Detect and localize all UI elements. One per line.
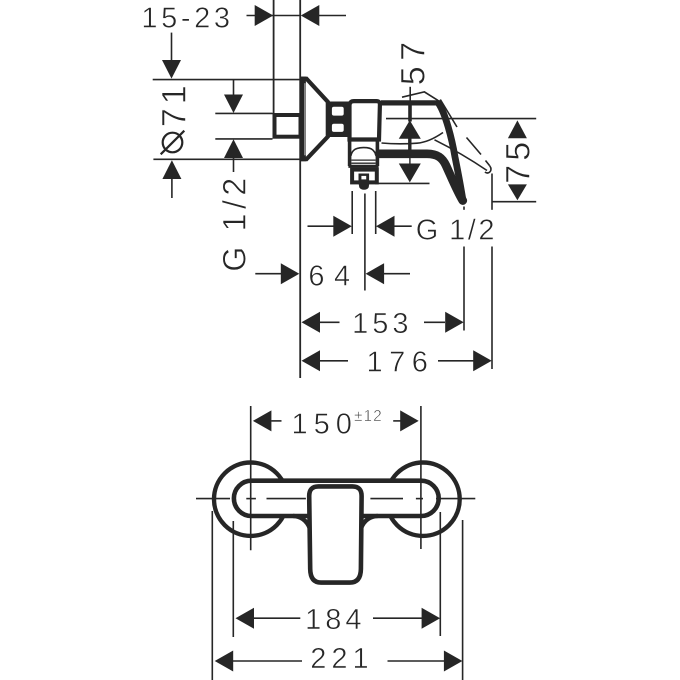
dim G1/2 wall stub: arrows bbox=[224, 80, 243, 172]
collar line 1 bbox=[351, 159, 375, 161]
check valve section sides bbox=[350, 139, 378, 166]
knob-bar fillet right bbox=[361, 516, 378, 528]
dim 57 arrows bbox=[399, 87, 421, 183]
knob-bar fillet left bbox=[293, 516, 310, 528]
collar line 2 bbox=[351, 162, 375, 164]
outlet extension lines bbox=[351, 191, 353, 234]
dim 184 row bbox=[236, 608, 441, 629]
svg-text:184: 184 bbox=[305, 604, 365, 636]
handle back edge bbox=[439, 103, 463, 200]
dim 153 row bbox=[302, 312, 464, 333]
reference line top (57/75) bbox=[386, 118, 536, 120]
outlet center axis bbox=[364, 194, 366, 291]
lever inner contour bbox=[382, 133, 444, 144]
open-position lever tip bbox=[485, 166, 491, 173]
dim 15-23 line and arrows bbox=[247, 5, 347, 26]
svg-text:221: 221 bbox=[310, 643, 373, 675]
extension line 176 right bbox=[491, 174, 493, 370]
open-position lever line B bbox=[435, 140, 488, 171]
dim outlet G1/2 row bbox=[308, 216, 412, 237]
wall line left bbox=[273, 0, 275, 114]
flange left face reinforcing bbox=[301, 77, 306, 162]
dim 150 row bbox=[253, 410, 419, 431]
union nut bbox=[352, 170, 377, 183]
wall stub pipe bbox=[275, 115, 301, 137]
svg-text:153: 153 bbox=[352, 308, 412, 340]
centerline horizontal (bottom view) bbox=[196, 498, 475, 500]
escutcheon flange (side view) bbox=[303, 79, 328, 160]
check valve dome arc bbox=[351, 148, 376, 156]
wall line right bbox=[299, 0, 301, 378]
dim 150 extension line left bbox=[250, 406, 252, 550]
svg-text:57: 57 bbox=[394, 36, 432, 85]
handle knob (front view) bbox=[309, 486, 361, 582]
vertical extension lines 221 bbox=[211, 511, 213, 680]
handle underside swoosh bbox=[379, 154, 463, 201]
lever top thin outline bbox=[402, 92, 438, 101]
vertical extension lines 184 bbox=[232, 521, 234, 637]
svg-text:G 1/2: G 1/2 bbox=[217, 173, 253, 271]
cartridge cover and lever bar bbox=[381, 100, 438, 105]
svg-text:150: 150 bbox=[292, 409, 358, 441]
dim 64 row bbox=[255, 263, 410, 284]
hose nipple square bbox=[359, 174, 370, 182]
reference line handle bottom bbox=[492, 201, 536, 203]
flange inner shade line bbox=[304, 83, 306, 155]
connector block with ports bbox=[327, 102, 350, 138]
dim diameter 71: extension lines bbox=[153, 79, 301, 81]
open-position lever line A bbox=[440, 100, 489, 166]
svg-text:±12: ±12 bbox=[354, 408, 383, 425]
dim diameter 71: arrows bbox=[162, 33, 181, 198]
extension line 153 right bbox=[463, 207, 465, 331]
mixer body bar (front view) bbox=[234, 481, 439, 516]
dim 150 extension line right bbox=[420, 406, 422, 549]
dim 176 row bbox=[302, 350, 492, 371]
escutcheon circle right (front view) bbox=[386, 463, 459, 536]
svg-text:176: 176 bbox=[367, 347, 435, 379]
svg-text:G 1/2: G 1/2 bbox=[416, 215, 497, 247]
escutcheon circle left (front view) bbox=[214, 463, 287, 536]
nut top edge bbox=[348, 165, 378, 168]
reference line outlet bottom bbox=[375, 182, 430, 184]
svg-text:64: 64 bbox=[308, 261, 359, 293]
dim 75 arrows bbox=[508, 120, 527, 200]
valve body bbox=[350, 101, 380, 139]
svg-text:15-23: 15-23 bbox=[141, 3, 233, 35]
hose nipple tip bbox=[359, 184, 370, 190]
body bottom edge bbox=[348, 138, 380, 141]
dim 221 row bbox=[215, 651, 463, 672]
svg-text:71: 71 bbox=[155, 81, 193, 127]
svg-text:75: 75 bbox=[500, 138, 538, 184]
dim G1/2 wall stub: extension lines bbox=[215, 112, 272, 114]
